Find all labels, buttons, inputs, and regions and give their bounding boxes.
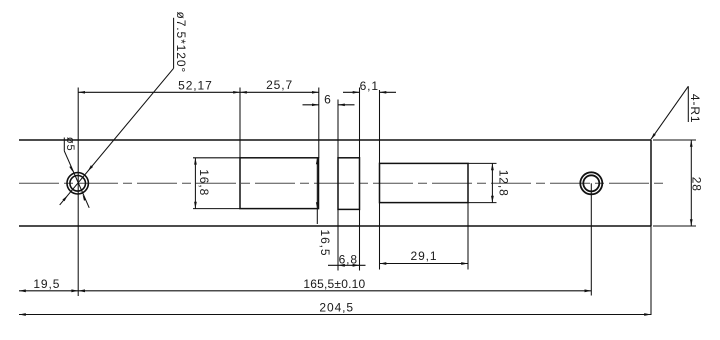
dimension 204,5 (19, 301, 651, 316)
svg-text:16,8: 16,8 (197, 169, 211, 196)
centerline (19, 182, 667, 184)
svg-text:6,1: 6,1 (360, 79, 379, 93)
extension line large slot right (318, 88, 320, 158)
dimension 29,1 (380, 249, 469, 265)
extension line narrow slot left top (337, 100, 339, 158)
extension line right hole center (590, 183, 592, 295)
extension line narrow slot left bottom (337, 209, 339, 270)
plate bottom edge (19, 225, 651, 227)
svg-text:165,5±0.10: 165,5±0.10 (303, 277, 365, 291)
dimension 16,5 (316, 158, 332, 257)
dimension 6,8 (328, 252, 366, 266)
svg-text:19,5: 19,5 (33, 277, 60, 291)
right hole (580, 172, 602, 194)
svg-text:4-R1: 4-R1 (688, 94, 702, 124)
dimension 6 (303, 92, 355, 106)
svg-text:25,7: 25,7 (266, 78, 293, 92)
narrow slot cutout (338, 158, 360, 210)
extension line right cutout right bottom (467, 203, 469, 270)
dimension 52,17 (78, 79, 240, 94)
leader and label 4-R1 corner radius (651, 86, 702, 139)
svg-text:16,5: 16,5 (318, 230, 332, 257)
right rectangular cutout (380, 163, 469, 202)
extension line through left hole (77, 88, 79, 297)
dimension 12,8 (468, 163, 511, 202)
extension line large slot left (239, 88, 241, 158)
dimension 25,7 (240, 78, 319, 94)
left countersunk hole (67, 173, 88, 194)
dimension 19,5 (19, 277, 78, 292)
dimension 6,1 (343, 79, 396, 94)
extension line right cutout left top (379, 90, 381, 163)
svg-text:29,1: 29,1 (411, 249, 438, 263)
dimension 16,8 (193, 158, 240, 209)
svg-text:6,8: 6,8 (339, 252, 358, 266)
svg-text:28: 28 (689, 177, 703, 192)
diameter dimension ø5 (64, 137, 89, 208)
plate right edge (650, 140, 652, 226)
large slot cutout (240, 158, 319, 209)
plate top edge (19, 139, 651, 141)
svg-text:204,5: 204,5 (319, 301, 354, 315)
svg-text:52,17: 52,17 (178, 79, 213, 93)
extension line right cutout left bottom (379, 203, 381, 270)
svg-text:ø7.5*120°: ø7.5*120° (174, 11, 188, 73)
dimension 28 (653, 140, 703, 226)
svg-text:6: 6 (324, 92, 332, 106)
dimension 165,5±0.10 (78, 277, 591, 292)
extension line plate right edge bottom (650, 226, 652, 315)
svg-text:ø5: ø5 (64, 137, 76, 152)
extension line narrow slot right bottom (359, 209, 361, 270)
leader and label ø7.5*120° countersink (60, 11, 188, 204)
svg-text:12,8: 12,8 (497, 170, 511, 197)
extension line narrow slot right top (359, 88, 361, 158)
